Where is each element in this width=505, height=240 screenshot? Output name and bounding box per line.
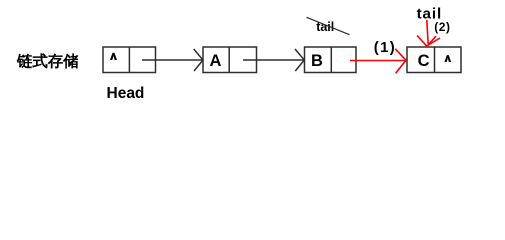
- svg-text:B: B: [311, 52, 323, 70]
- label Head under head node: [107, 85, 145, 102]
- svg-text:(1): (1): [374, 39, 396, 56]
- wire: red pointer (1) from B.next to node C: [350, 49, 406, 74]
- null-data marker ^ in first cell of Head: [110, 53, 117, 60]
- wire: pointer arrow from A.next to node B: [243, 49, 304, 71]
- node B: record box: [305, 47, 357, 73]
- strike-through line crossing out old tail label: [307, 17, 350, 34]
- node A: record box: [203, 47, 257, 73]
- label B in data cell of node B: [311, 52, 323, 70]
- null pointer ^ in next cell of node C: [445, 55, 452, 62]
- label (1) on red pointer: [374, 39, 396, 56]
- wire: red line from tail label down to node C (pointer 2): [427, 20, 428, 45]
- label tail (old position, struck out) above node B: [316, 20, 334, 34]
- wire: pointer arrow from Head.next to node A: [142, 49, 203, 71]
- label (2) next to new tail pointer: [434, 20, 450, 34]
- title text 链式存储 (linked storage), drawn as vector glyph outlines: [17, 54, 78, 69]
- node C: record box: [407, 47, 461, 73]
- label tail (new position) above node C: [417, 6, 443, 23]
- svg-text:A: A: [210, 52, 222, 70]
- red arrowhead pointing down at top of node C: [417, 36, 436, 47]
- svg-text:C: C: [418, 52, 430, 70]
- svg-text:(2): (2): [434, 20, 450, 34]
- svg-text:Head: Head: [107, 85, 145, 102]
- label A in data cell of node A: [210, 52, 222, 70]
- wire: red line from label (2) down-left to node C: [428, 38, 440, 45]
- node Head: record box: [103, 47, 156, 73]
- label C in data cell of node C: [418, 52, 430, 70]
